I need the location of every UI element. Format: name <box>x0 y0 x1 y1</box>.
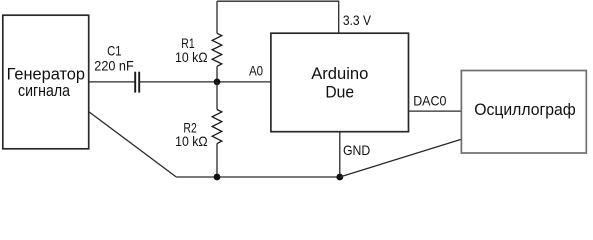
svg-text:10 kΩ: 10 kΩ <box>175 133 208 149</box>
oscilloscope box (Осциллограф) <box>461 71 586 154</box>
wire: C1 right plate to node A0 <box>139 81 217 83</box>
capacitor C1 <box>135 72 139 93</box>
junction on ground bus below R2 (dot) <box>214 174 221 181</box>
wire: diagonal from ground bus to oscilloscope <box>340 139 462 177</box>
svg-text:3.3 V: 3.3 V <box>343 12 372 28</box>
wire: node A0 to Arduino A0 pin <box>217 81 271 83</box>
svg-text:сигнала: сигнала <box>18 81 70 100</box>
svg-text:DAC0: DAC0 <box>413 93 446 109</box>
wire: DAC0 to oscilloscope <box>409 110 462 112</box>
svg-text:C1: C1 <box>107 43 122 59</box>
junction node A0 (dot) <box>214 79 221 86</box>
svg-text:10 kΩ: 10 kΩ <box>175 49 208 65</box>
wire: ground bus <box>176 176 340 178</box>
svg-text:A0: A0 <box>249 63 263 79</box>
junction on ground bus below GND pin (dot) <box>336 174 343 181</box>
svg-text:Arduino: Arduino <box>311 64 368 83</box>
svg-text:Осциллограф: Осциллограф <box>474 100 576 119</box>
signal generator box (Генератор сигнала) <box>3 15 89 149</box>
resistor R1 <box>212 1 222 82</box>
svg-text:Due: Due <box>325 82 354 101</box>
Arduino Due box <box>271 33 409 132</box>
svg-text:GND: GND <box>343 142 370 158</box>
wire: diagonal from generator to ground bus <box>89 112 176 177</box>
wire: GND pin down to ground bus <box>339 132 341 177</box>
resistor R2 <box>212 82 222 177</box>
wire: generator output to C1 left plate <box>89 81 136 83</box>
wire: top rail from R1 top to 3.3V pin <box>217 1 339 33</box>
svg-text:220 nF: 220 nF <box>94 58 133 74</box>
